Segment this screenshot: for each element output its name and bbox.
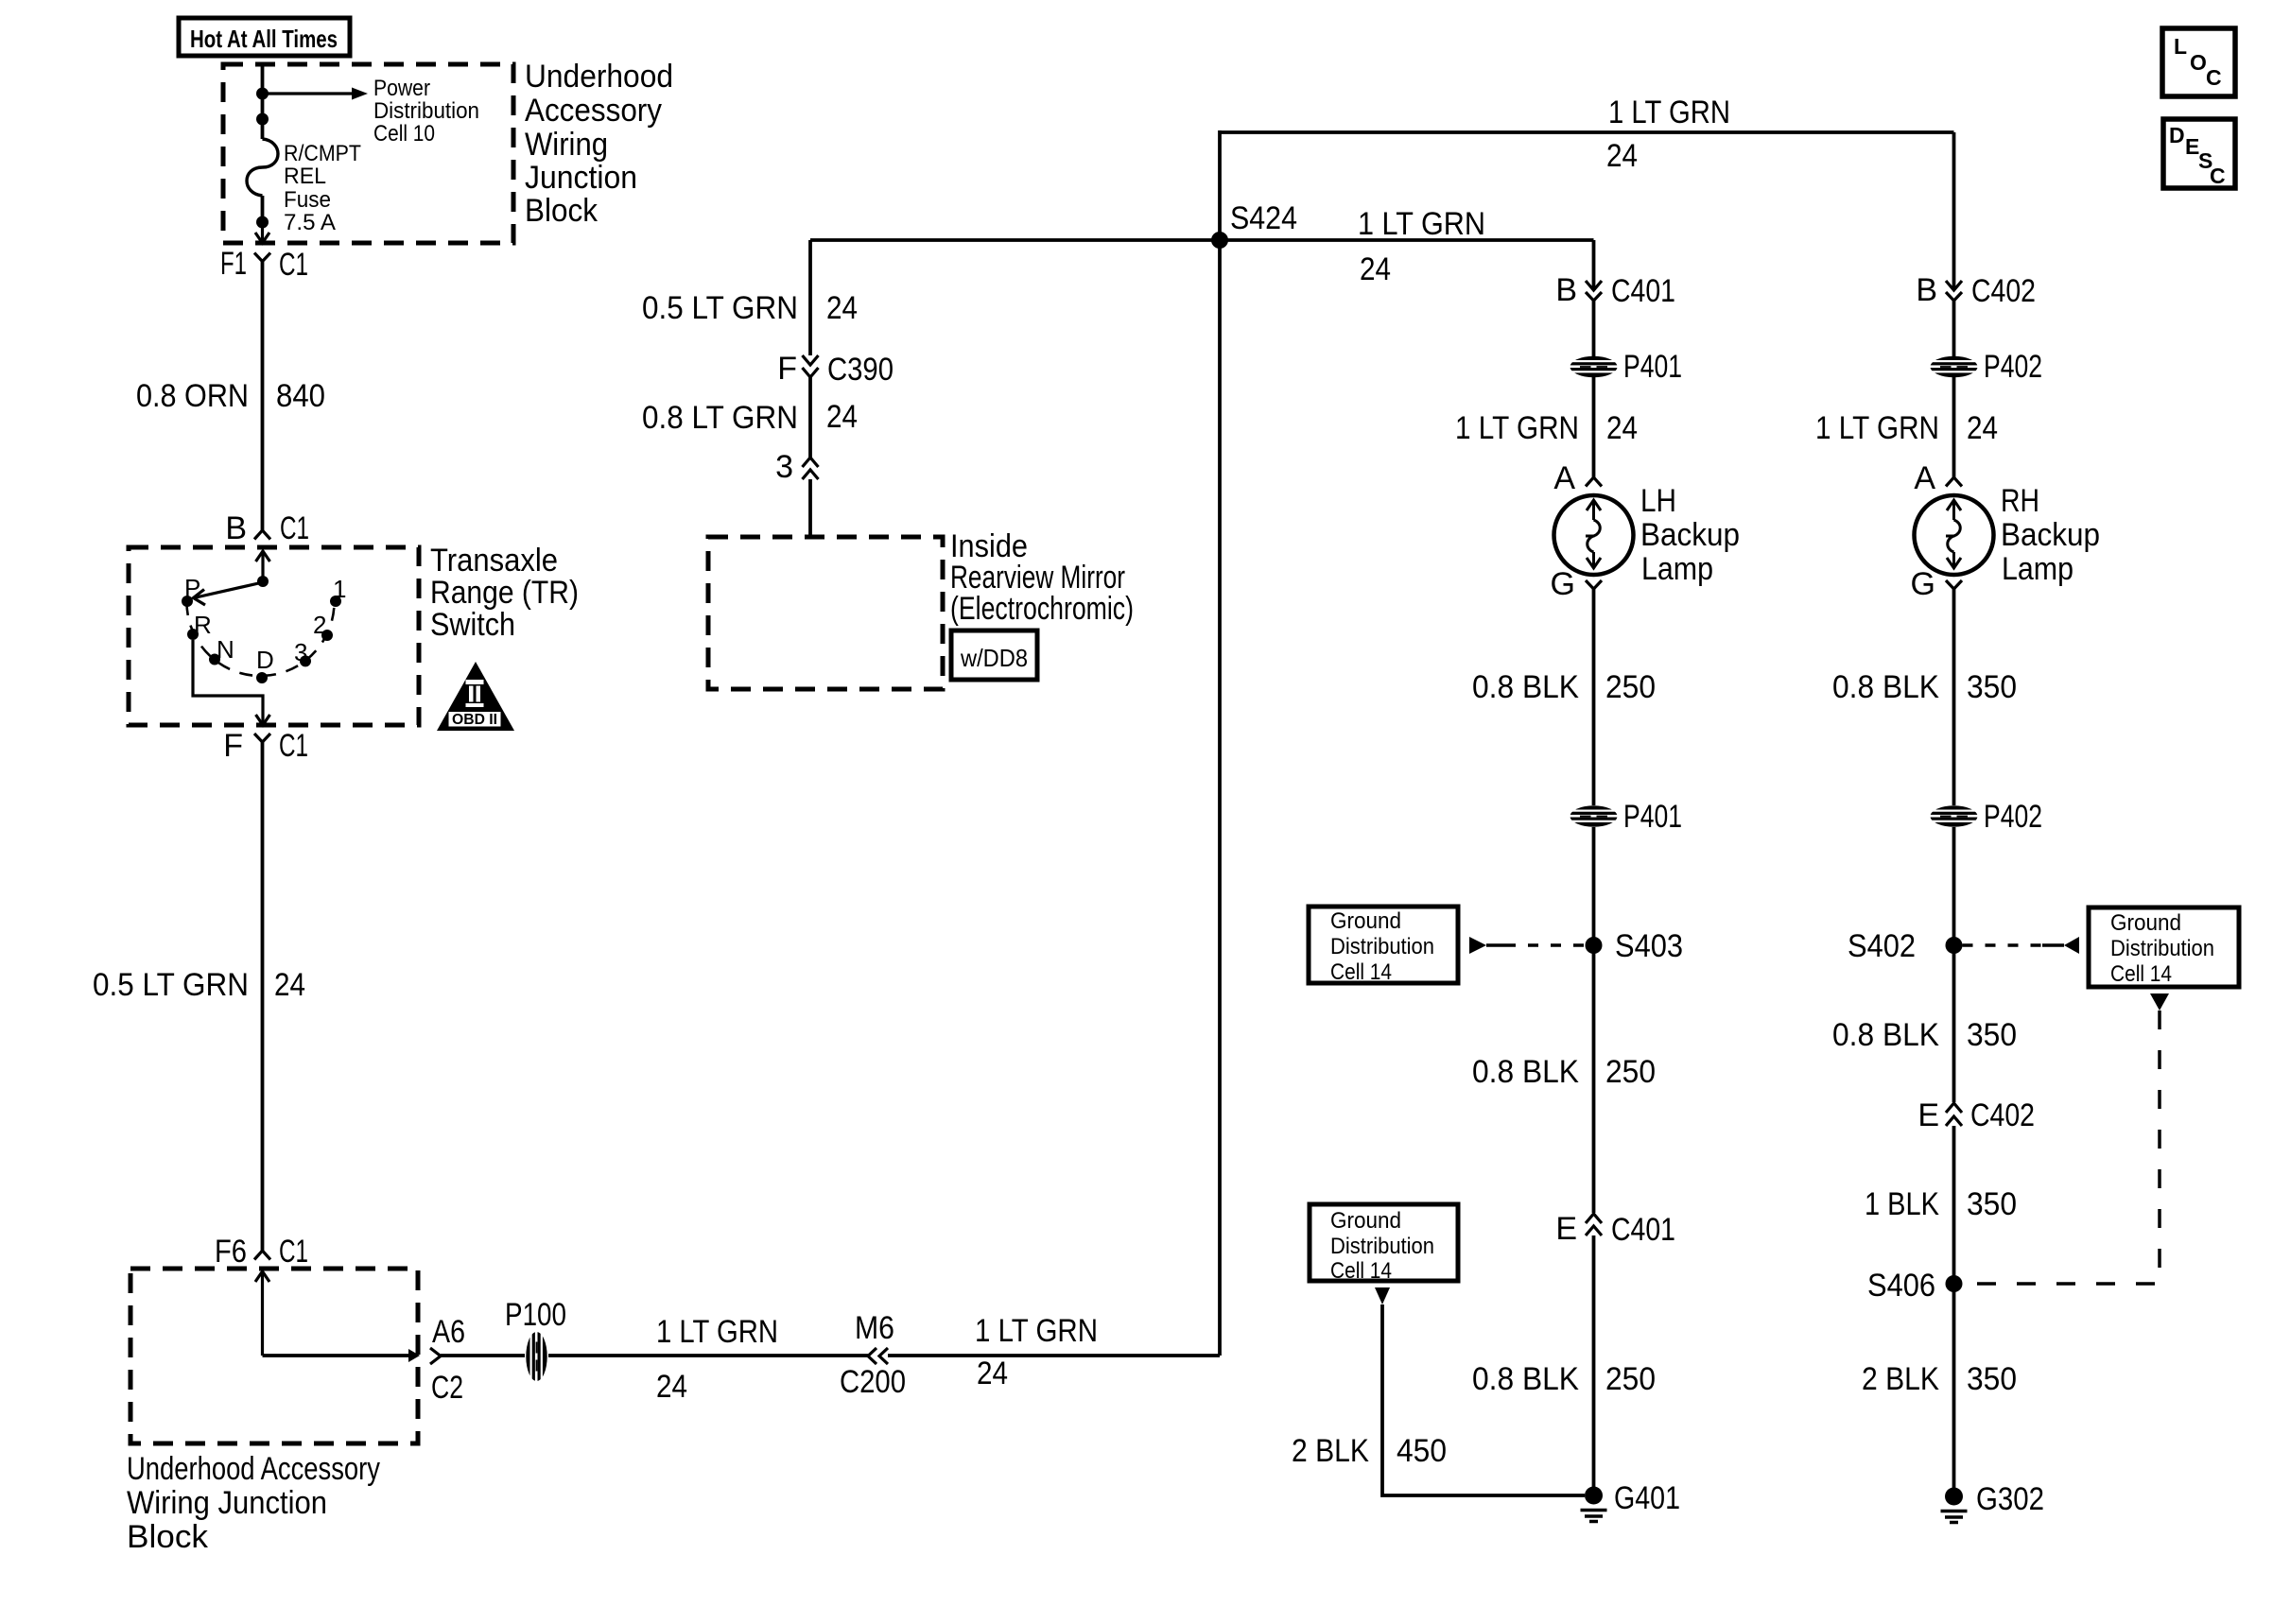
svg-text:A: A <box>1553 460 1575 496</box>
svg-text:1 BLK: 1 BLK <box>1865 1186 1939 1222</box>
svg-text:(Electrochromic): (Electrochromic) <box>950 591 1134 627</box>
label wire 0.8 BLK 350 (1) <box>1832 669 2017 705</box>
label wire 0.8 BLK 250 (1) <box>1472 669 1656 705</box>
svg-text:2 BLK: 2 BLK <box>1292 1433 1369 1469</box>
label wire 1 LT GRN 24 (LH lamp feed) <box>1455 410 1638 446</box>
junction block input arrow <box>255 1271 269 1356</box>
svg-text:C401: C401 <box>1611 1212 1675 1248</box>
svg-text:24: 24 <box>274 967 305 1003</box>
arrow fuse output (exits junction block) <box>255 222 269 243</box>
dashed link S403 to ground cell <box>1469 937 1585 954</box>
connector C401 pin E <box>1555 1211 1675 1248</box>
svg-text:R: R <box>194 611 212 639</box>
transaxle range switch box (dashed) <box>129 547 419 725</box>
svg-text:0.5 LT GRN: 0.5 LT GRN <box>642 290 798 326</box>
svg-text:w/DD8: w/DD8 <box>960 644 1028 672</box>
svg-text:0.8 BLK: 0.8 BLK <box>1472 1361 1579 1397</box>
connector C402 pin B <box>1916 272 2036 309</box>
svg-text:O: O <box>2190 50 2207 75</box>
wire C200 to trunk <box>888 1354 1220 1357</box>
label wire 0.8 LT GRN 24 <box>642 399 858 436</box>
connector C1 pin F6 <box>215 1234 308 1270</box>
svg-text:RH: RH <box>2001 483 2039 519</box>
node S403 <box>1586 928 1684 964</box>
RH lamp pin G <box>1911 566 1962 602</box>
svg-text:3: 3 <box>294 638 307 666</box>
wire P401 to lamp <box>1592 377 1596 477</box>
connector C402 pin E <box>1917 1097 2035 1133</box>
svg-text:E: E <box>1917 1097 1939 1133</box>
svg-text:350: 350 <box>1967 1017 2017 1053</box>
lamp pin A <box>1553 460 1602 496</box>
label wire 0.5 LT GRN 24 <box>93 967 305 1003</box>
svg-text:1 LT GRN: 1 LT GRN <box>1608 95 1730 130</box>
svg-text:0.5 LT GRN: 0.5 LT GRN <box>93 967 249 1003</box>
svg-text:24: 24 <box>1967 410 1998 446</box>
label Underhood Accessory Wiring Junction Block (bottom) <box>127 1451 380 1555</box>
svg-text:D: D <box>256 646 274 674</box>
svg-text:1: 1 <box>333 575 346 603</box>
connector C1 pin F <box>223 728 308 764</box>
label wire 2 BLK 450 <box>1292 1433 1447 1469</box>
svg-text:Lamp: Lamp <box>2002 551 2073 587</box>
svg-text:Underhood: Underhood <box>525 59 673 95</box>
svg-text:B: B <box>1916 272 1937 308</box>
svg-text:0.8 ORN: 0.8 ORN <box>136 378 249 414</box>
svg-text:0.8 BLK: 0.8 BLK <box>1472 1054 1579 1090</box>
svg-text:2 BLK: 2 BLK <box>1862 1361 1939 1397</box>
svg-text:Distribution: Distribution <box>2110 936 2214 961</box>
svg-text:C: C <box>2210 164 2226 188</box>
wire lamp to P401 lower <box>1592 589 1596 805</box>
TR switch wiper node <box>257 576 269 587</box>
label wire 0.8 ORN 840 <box>136 378 325 414</box>
labels A6 C2 <box>431 1314 465 1406</box>
svg-text:Cell 14: Cell 14 <box>2110 961 2172 987</box>
svg-text:C1: C1 <box>279 728 308 764</box>
svg-text:350: 350 <box>1967 1186 2017 1222</box>
svg-text:Cell 14: Cell 14 <box>1330 959 1392 985</box>
RH backup lamp <box>1915 495 1994 575</box>
wire top run to RH <box>1220 130 1954 134</box>
label wire 1 LT GRN 24 (left) <box>656 1314 778 1405</box>
svg-text:450: 450 <box>1397 1433 1447 1469</box>
svg-text:7.5 A: 7.5 A <box>284 210 336 235</box>
connector C1 pin F1 <box>220 246 308 283</box>
svg-text:G302: G302 <box>1976 1481 2044 1517</box>
svg-text:1 LT GRN: 1 LT GRN <box>975 1313 1098 1349</box>
option box w/DD8 <box>951 631 1037 680</box>
svg-text:C1: C1 <box>279 1234 308 1270</box>
svg-text:250: 250 <box>1605 1361 1656 1397</box>
grommet P402 (upper) <box>1930 349 2043 385</box>
node S406 <box>1867 1268 1963 1304</box>
svg-text:L: L <box>2174 34 2187 59</box>
svg-text:350: 350 <box>1967 1361 2017 1397</box>
label R/CMPT REL Fuse 7.5 A <box>284 141 361 235</box>
wire F to F6 <box>261 742 265 1252</box>
label RH Backup Lamp <box>2001 483 2100 587</box>
svg-text:Backup: Backup <box>2001 517 2100 553</box>
wire fuse feed <box>261 64 265 227</box>
svg-text:Accessory: Accessory <box>525 93 662 129</box>
svg-text:24: 24 <box>1360 251 1391 287</box>
svg-text:C390: C390 <box>827 352 894 388</box>
svg-text:0.8 BLK: 0.8 BLK <box>1832 1017 1939 1053</box>
svg-text:C: C <box>2206 65 2222 90</box>
wire C390 to pin 3 <box>808 377 812 458</box>
connector C200 pin M6 <box>840 1310 906 1400</box>
wire P100 to C200 <box>548 1354 868 1357</box>
svg-text:1 LT GRN: 1 LT GRN <box>1358 206 1485 242</box>
connector C390 pin F <box>777 351 894 388</box>
svg-text:C402: C402 <box>1970 1097 2035 1133</box>
svg-text:C200: C200 <box>840 1364 906 1400</box>
svg-text:F: F <box>777 351 797 387</box>
arrow to power distribution cell 10 <box>269 88 369 100</box>
svg-text:B: B <box>1555 272 1577 308</box>
wire C401 to P401 <box>1592 300 1596 356</box>
wire pin 3 to mirror <box>808 479 812 535</box>
svg-text:Fuse: Fuse <box>284 187 331 213</box>
label Transaxle Range (TR) Switch <box>430 543 579 643</box>
svg-text:2: 2 <box>313 611 326 639</box>
svg-text:S424: S424 <box>1230 200 1297 236</box>
ground G401 <box>1581 1480 1681 1522</box>
svg-text:P402: P402 <box>1984 799 2042 835</box>
svg-text:M6: M6 <box>855 1310 894 1346</box>
power source label box "Hot At All Times" <box>179 18 350 56</box>
svg-text:Transaxle: Transaxle <box>430 543 558 579</box>
wire pin E to G302 <box>1952 1126 1956 1488</box>
svg-text:1 LT GRN: 1 LT GRN <box>1815 410 1939 446</box>
svg-text:C401: C401 <box>1611 273 1675 309</box>
svg-text:R/CMPT: R/CMPT <box>284 141 361 166</box>
label wire 1 LT GRN 24 (RH lamp feed) <box>1815 410 1998 446</box>
svg-text:LH: LH <box>1640 483 1676 519</box>
wire RH lamp to P402 lower <box>1952 589 1956 805</box>
TR switch wiper arm to P <box>194 582 264 605</box>
svg-text:C402: C402 <box>1971 273 2036 309</box>
svg-text:P100: P100 <box>505 1297 566 1333</box>
node above fuse <box>256 113 269 126</box>
dashed link S402 to ground cell <box>1963 937 2080 954</box>
wire 2 BLK 450 branch <box>1382 1304 1585 1495</box>
svg-text:250: 250 <box>1605 1054 1656 1090</box>
svg-text:P401: P401 <box>1623 799 1682 835</box>
label wire 0.8 BLK 350 (2) <box>1832 1017 2017 1053</box>
wire to A6 exit <box>263 1354 409 1357</box>
wire C402 to P402 <box>1952 300 1956 356</box>
svg-text:350: 350 <box>1967 669 2017 705</box>
contact 2 <box>313 611 333 641</box>
svg-text:Switch: Switch <box>430 607 515 643</box>
ground cell branch arrow <box>1375 1287 1390 1304</box>
svg-text:Backup: Backup <box>1640 517 1740 553</box>
grommet P402 (lower) <box>1930 799 2043 835</box>
svg-text:24: 24 <box>826 399 858 435</box>
label wire 1 LT GRN 24 (S424 run) <box>1358 206 1485 287</box>
contact 1 <box>330 575 346 607</box>
node S424 <box>1211 200 1297 249</box>
LOC reference box <box>2162 28 2235 96</box>
connector C2 pin A6 arrow <box>408 1348 441 1364</box>
svg-text:S402: S402 <box>1848 928 1916 964</box>
wire R contact to output <box>193 640 263 712</box>
label wire 0.8 BLK 250 (2) <box>1472 1054 1656 1090</box>
svg-text:N: N <box>217 635 234 664</box>
svg-text:Power: Power <box>373 76 430 101</box>
label Underhood Accessory Wiring Junction Block (top) <box>525 59 673 229</box>
contact 3 <box>294 638 311 666</box>
svg-text:24: 24 <box>1606 138 1638 174</box>
svg-text:OBD II: OBD II <box>452 712 497 728</box>
ground distribution cell 14 box (left) <box>1309 907 1458 985</box>
svg-text:0.8 LT GRN: 0.8 LT GRN <box>642 400 798 436</box>
wire A6 to P100 <box>441 1354 525 1357</box>
svg-text:Block: Block <box>525 193 599 229</box>
wire P402 to lamp <box>1952 377 1956 477</box>
node feed junction <box>256 88 269 100</box>
grommet P401 (upper) <box>1570 349 1683 385</box>
svg-text:Ground: Ground <box>1330 908 1401 934</box>
LH backup lamp <box>1554 495 1634 575</box>
svg-text:24: 24 <box>656 1369 687 1405</box>
inside rearview mirror box (dashed) <box>708 537 943 689</box>
connector C1 pin B <box>225 510 309 546</box>
svg-text:Underhood Accessory: Underhood Accessory <box>127 1451 380 1487</box>
svg-text:F: F <box>223 728 243 764</box>
svg-text:Wiring: Wiring <box>525 127 608 163</box>
grommet P401 (lower) <box>1570 799 1683 835</box>
svg-text:S403: S403 <box>1615 928 1683 964</box>
wire pin E to G401 <box>1592 1235 1596 1487</box>
dashed link S406 to right ground cell <box>1964 993 2169 1284</box>
svg-text:S406: S406 <box>1867 1268 1935 1304</box>
svg-text:P: P <box>184 574 200 602</box>
lamp pin G <box>1551 566 1602 602</box>
connector C401 pin B <box>1555 272 1675 309</box>
svg-text:B: B <box>225 510 247 546</box>
TR switch contact arc <box>187 602 335 676</box>
svg-text:Distribution: Distribution <box>1330 1234 1434 1259</box>
svg-text:P402: P402 <box>1984 349 2042 385</box>
contact R <box>187 611 212 640</box>
svg-text:3: 3 <box>775 449 793 485</box>
label wire 1 LT GRN 24 (top run) <box>1606 95 1730 174</box>
svg-text:1 LT GRN: 1 LT GRN <box>656 1314 778 1350</box>
wire S424 to C390 <box>808 240 812 355</box>
svg-text:Block: Block <box>127 1519 209 1555</box>
svg-text:24: 24 <box>826 290 858 326</box>
fuse R/CMPT REL 7.5 A <box>247 139 278 196</box>
label wire 0.5 LT GRN 24 (mirror feed) <box>642 290 858 326</box>
svg-text:0.8 BLK: 0.8 BLK <box>1832 669 1939 705</box>
svg-text:Distribution: Distribution <box>373 98 479 124</box>
label wire 0.8 BLK 250 (3) <box>1472 1361 1656 1397</box>
svg-text:Ground: Ground <box>2110 910 2181 936</box>
svg-text:840: 840 <box>276 378 325 414</box>
wire P401 to C401 pin E <box>1592 827 1596 1213</box>
svg-text:G401: G401 <box>1614 1480 1680 1516</box>
contact N <box>209 635 234 665</box>
wire top to C402 <box>1952 132 1956 290</box>
svg-text:G: G <box>1911 566 1935 602</box>
contact P <box>182 574 200 607</box>
TR switch output arrow <box>256 712 270 725</box>
label Inside Rearview Mirror (Electrochromic) <box>950 528 1134 627</box>
svg-text:Cell 14: Cell 14 <box>1330 1258 1392 1284</box>
svg-text:A6: A6 <box>432 1314 465 1350</box>
svg-text:C1: C1 <box>280 510 309 546</box>
ground G302 <box>1941 1481 2045 1523</box>
svg-text:C1: C1 <box>279 247 308 283</box>
label wire 2 BLK 350 <box>1862 1361 2017 1397</box>
svg-text:Wiring Junction: Wiring Junction <box>127 1485 327 1521</box>
svg-text:D: D <box>2169 123 2185 147</box>
svg-text:REL: REL <box>284 164 326 189</box>
ground distribution cell 14 box (lower left) <box>1310 1204 1458 1284</box>
svg-text:F6: F6 <box>215 1234 247 1270</box>
node S402 <box>1848 928 1963 964</box>
DESC reference box <box>2163 119 2235 188</box>
TR switch input arrow <box>256 551 270 581</box>
grommet P100 <box>505 1297 566 1382</box>
svg-text:24: 24 <box>977 1356 1008 1391</box>
label wire 1 BLK 350 <box>1865 1186 2017 1222</box>
svg-text:G: G <box>1551 566 1575 602</box>
svg-text:Hot At All Times: Hot At All Times <box>190 25 338 53</box>
svg-text:1 LT GRN: 1 LT GRN <box>1455 410 1579 446</box>
svg-text:C2: C2 <box>431 1370 463 1406</box>
svg-text:A: A <box>1914 460 1935 496</box>
svg-text:E: E <box>1555 1211 1577 1247</box>
node below fuse <box>256 216 269 229</box>
underhood accessory wiring junction block (dashed box, top) <box>223 64 513 243</box>
svg-text:P401: P401 <box>1623 349 1682 385</box>
svg-text:Range (TR): Range (TR) <box>430 575 579 611</box>
svg-text:Distribution: Distribution <box>1330 934 1434 959</box>
OBD II symbol <box>437 662 514 731</box>
svg-text:24: 24 <box>1606 410 1638 446</box>
label LH Backup Lamp <box>1640 483 1740 587</box>
svg-text:Lamp: Lamp <box>1641 551 1713 587</box>
svg-text:Cell 10: Cell 10 <box>373 121 435 147</box>
underhood accessory wiring junction block (dashed box, bottom) <box>130 1269 418 1443</box>
label wire 1 LT GRN 24 (right) <box>975 1313 1098 1391</box>
wire F1 to B <box>261 262 265 531</box>
svg-text:Ground: Ground <box>1330 1208 1401 1234</box>
svg-text:F1: F1 <box>220 246 247 282</box>
wire trunk (S424 riser) <box>1218 130 1222 1356</box>
svg-text:Junction: Junction <box>525 160 637 196</box>
label Power Distribution Cell 10 <box>373 76 479 147</box>
wire S424 run (C390 to C401) <box>810 238 1594 242</box>
svg-text:250: 250 <box>1605 669 1656 705</box>
wire P402 to C402 pin E <box>1952 827 1956 1102</box>
RH lamp pin A <box>1914 460 1962 496</box>
ground distribution cell 14 box (right) <box>2089 907 2239 987</box>
wire S424 to C401 <box>1592 240 1596 290</box>
svg-text:0.8 BLK: 0.8 BLK <box>1472 669 1579 705</box>
connector mirror pin 3 <box>775 449 818 485</box>
contact D <box>256 646 274 683</box>
